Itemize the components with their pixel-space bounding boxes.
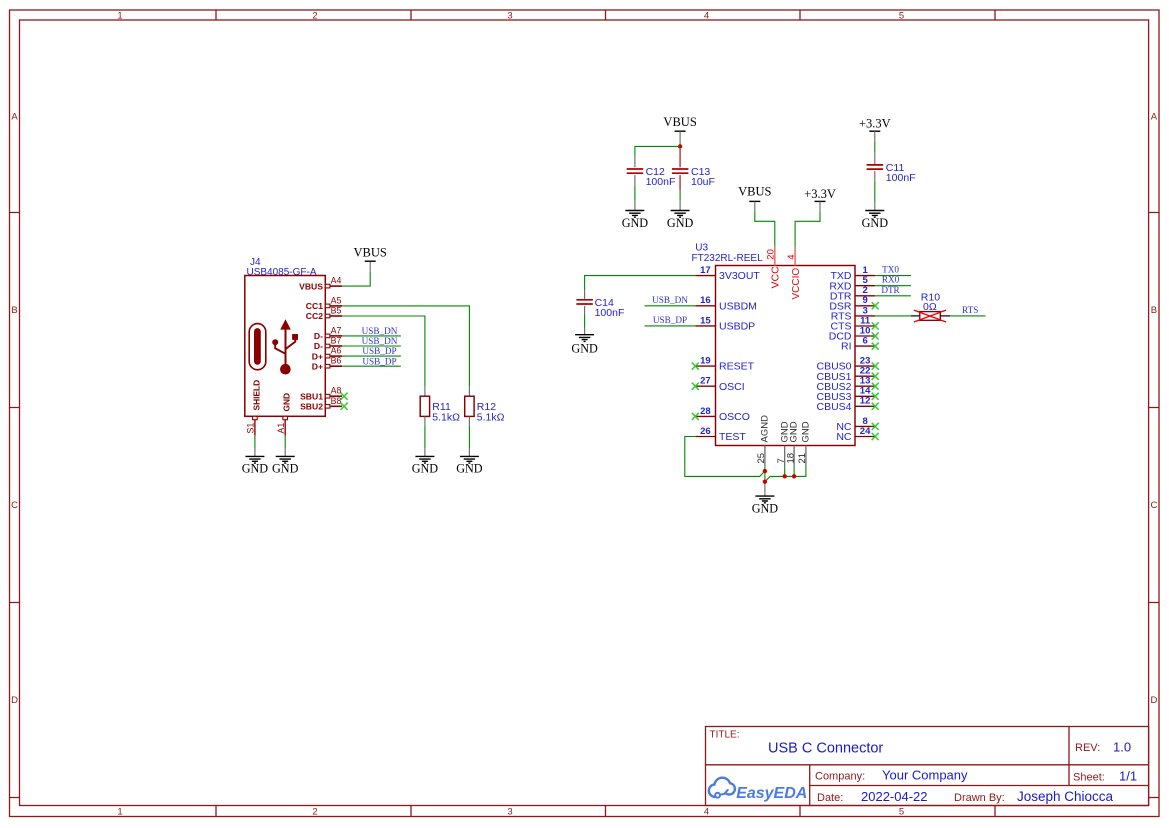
svg-text:TEST: TEST	[719, 431, 746, 443]
svg-text:GND: GND	[862, 216, 889, 230]
wire R10 to RTS label	[950, 315, 985, 317]
U3 right pin 1 TXD	[855, 275, 875, 277]
ground R12	[460, 456, 479, 463]
svg-text:2: 2	[312, 806, 317, 817]
svg-text:17: 17	[700, 265, 711, 276]
wire D- A7	[342, 335, 401, 337]
svg-text:Drawn By:: Drawn By:	[954, 792, 1005, 804]
svg-text:USBDM: USBDM	[719, 300, 757, 312]
U3 right pin 11 CTS	[855, 325, 875, 327]
svg-text:GND: GND	[752, 501, 779, 515]
svg-text:USB C Connector: USB C Connector	[768, 740, 883, 756]
ground C14	[575, 335, 594, 342]
svg-text:CBUS4: CBUS4	[816, 401, 851, 413]
svg-text:A: A	[11, 112, 18, 123]
U3 top pin 20 VCC	[774, 247, 776, 266]
svg-text:GND: GND	[272, 462, 299, 476]
svg-text:5: 5	[899, 10, 904, 21]
svg-text:EasyEDA: EasyEDA	[736, 785, 807, 802]
svg-text:4: 4	[704, 806, 709, 817]
J4 bottom pins S1 A1	[246, 416, 288, 456]
U3 right pin 2 DTR	[855, 295, 875, 297]
capacitor C14	[576, 300, 593, 304]
wire DTR	[875, 295, 911, 297]
U3 right pin 22 CBUS1	[855, 375, 875, 377]
svg-text:VCCIO: VCCIO	[791, 268, 802, 300]
svg-text:2022-04-22: 2022-04-22	[861, 789, 928, 804]
svg-text:B8: B8	[331, 396, 342, 406]
svg-text:GND: GND	[667, 216, 694, 230]
U3 right pin 13 CBUS2	[855, 385, 875, 387]
svg-text:C: C	[11, 500, 18, 511]
IC U3 FT232RL-REEL	[692, 243, 856, 446]
wire D+ A6	[342, 355, 401, 357]
svg-text:D: D	[11, 695, 18, 706]
svg-text:5.1kΩ: 5.1kΩ	[432, 411, 460, 423]
U3 right pin 9 DSR	[855, 305, 875, 307]
svg-text:USB_DP: USB_DP	[653, 315, 687, 325]
svg-text:A: A	[1151, 112, 1158, 123]
svg-text:B7: B7	[331, 336, 342, 346]
svg-text:5: 5	[899, 806, 904, 817]
wire RXD	[875, 285, 911, 287]
svg-text:USB_DN: USB_DN	[362, 336, 398, 346]
svg-text:5.1kΩ: 5.1kΩ	[477, 411, 505, 423]
svg-text:16: 16	[700, 295, 711, 306]
svg-text:Your Company: Your Company	[882, 767, 968, 782]
EasyEDA logo	[709, 778, 807, 802]
junction AGND bus 2	[763, 480, 767, 484]
svg-text:26: 26	[700, 426, 711, 437]
svg-text:3V3OUT: 3V3OUT	[719, 270, 760, 282]
svg-text:A4: A4	[331, 276, 342, 286]
svg-text:VBUS: VBUS	[354, 245, 387, 259]
U3 right pin 5 RXD	[855, 285, 875, 287]
svg-text:Date:: Date:	[817, 792, 843, 804]
svg-text:VBUS: VBUS	[738, 185, 771, 199]
svg-text:USB_DN: USB_DN	[362, 326, 398, 336]
no-connect X SBU1	[341, 393, 348, 400]
svg-text:A6: A6	[331, 346, 342, 356]
svg-text:20: 20	[766, 249, 777, 260]
svg-text:NC: NC	[836, 431, 852, 443]
svg-text:GND: GND	[282, 393, 292, 412]
svg-text:A8: A8	[331, 386, 342, 396]
svg-text:VBUS: VBUS	[663, 115, 696, 129]
U3 right pin 24 NC	[855, 436, 875, 438]
svg-text:D+: D+	[312, 361, 323, 371]
svg-text:TX0: TX0	[882, 265, 899, 275]
svg-text:25: 25	[756, 453, 767, 464]
svg-text:D: D	[1150, 695, 1157, 706]
svg-text:C: C	[1150, 500, 1157, 511]
svg-text:10uF: 10uF	[691, 176, 715, 188]
svg-text:USB_DP: USB_DP	[362, 356, 396, 366]
svg-text:CC1: CC1	[306, 301, 323, 311]
wire USBDM stub	[645, 305, 696, 307]
svg-text:15: 15	[700, 315, 711, 326]
svg-text:4: 4	[786, 254, 797, 259]
svg-text:SHIELD: SHIELD	[251, 380, 261, 411]
capacitor C13	[679, 149, 681, 168]
wire D- B7	[342, 345, 401, 347]
svg-text:100nF: 100nF	[595, 307, 625, 319]
svg-text:D+: D+	[312, 351, 323, 361]
wire TXD	[875, 275, 911, 277]
connector J4 USB4085-GF-A	[245, 257, 325, 416]
U3 bottom pin 25 AGND	[764, 446, 766, 467]
svg-text:100nF: 100nF	[646, 176, 676, 188]
svg-text:OSCI: OSCI	[719, 381, 745, 393]
svg-text:100nF: 100nF	[886, 172, 916, 184]
svg-text:GND: GND	[622, 216, 649, 230]
ground C12	[625, 211, 644, 218]
svg-text:RX0: RX0	[882, 275, 900, 285]
no-connect X SBU2	[341, 403, 348, 410]
ground R11	[415, 456, 434, 463]
svg-text:+3.3V: +3.3V	[859, 117, 891, 131]
svg-text:3: 3	[507, 10, 512, 21]
svg-text:S1: S1	[246, 423, 256, 434]
U3 left pin 16 USBDM	[695, 305, 715, 307]
svg-text:21: 21	[797, 453, 808, 464]
svg-text:USBDP: USBDP	[719, 321, 755, 333]
junction AGND bus 1	[763, 469, 767, 473]
svg-text:SBU1: SBU1	[300, 391, 323, 401]
svg-text:A5: A5	[331, 295, 342, 305]
resistor R10	[920, 312, 941, 321]
wire VBUS node to C12	[635, 146, 680, 155]
svg-text:6: 6	[862, 336, 867, 347]
J4 pin names	[299, 281, 323, 411]
U3 left pin 19 RESET	[695, 365, 715, 367]
J4 right-side pins	[325, 284, 342, 408]
svg-text:VBUS: VBUS	[299, 281, 323, 291]
U3 left pin 27 OSCI	[695, 385, 715, 387]
svg-text:28: 28	[700, 406, 711, 417]
wire 3V3OUT to C14	[585, 276, 696, 291]
capacitor C11	[867, 165, 884, 169]
wire TEST to ground bus	[685, 437, 765, 477]
svg-text:1: 1	[117, 806, 122, 817]
U3 right pin 23 CBUS0	[855, 365, 875, 367]
svg-text:RTS: RTS	[962, 305, 978, 315]
ground C11	[865, 211, 884, 218]
svg-text:A1: A1	[276, 423, 286, 434]
svg-text:A7: A7	[331, 325, 342, 335]
svg-text:GND: GND	[456, 462, 483, 476]
U3 top pin 4 VCCIO	[794, 247, 796, 266]
svg-text:AGND: AGND	[760, 415, 771, 443]
power flag VBUS at J4	[365, 260, 376, 262]
svg-text:Joseph Chiocca: Joseph Chiocca	[1017, 789, 1114, 804]
svg-text:24: 24	[860, 426, 871, 437]
U3 bottom pin 18 GND	[793, 446, 795, 467]
U3 right pin 10 DCD	[855, 335, 875, 337]
resistor R11	[420, 396, 429, 416]
svg-text:TITLE:: TITLE:	[710, 730, 740, 741]
svg-text:Sheet:: Sheet:	[1073, 771, 1105, 783]
ground C13	[671, 211, 690, 218]
wire D+ B6	[342, 365, 401, 367]
wire USBDP stub	[645, 325, 696, 327]
junction VBUS node	[678, 144, 682, 148]
svg-text:1/1: 1/1	[1119, 768, 1137, 783]
svg-text:3: 3	[507, 806, 512, 817]
svg-text:GND: GND	[789, 421, 800, 442]
R10 crossed-out X	[914, 310, 946, 322]
svg-text:4: 4	[704, 10, 709, 21]
svg-text:RESET: RESET	[719, 361, 755, 373]
svg-text:D-: D-	[314, 331, 323, 341]
svg-text:27: 27	[700, 376, 711, 387]
J4 USB trident icon	[249, 319, 298, 374]
junction GND pin7	[783, 474, 787, 478]
svg-text:2: 2	[312, 10, 317, 21]
svg-text:DTR: DTR	[881, 285, 900, 295]
ground J4 S1	[245, 456, 264, 463]
resistor R12	[465, 396, 474, 416]
svg-text:18: 18	[785, 453, 796, 464]
U3 left pin 15 USBDP	[695, 325, 715, 327]
svg-text:GND: GND	[801, 421, 812, 442]
wire +3.3V to VCCIO pin 4	[795, 212, 820, 247]
wire CC2 to R11	[342, 316, 425, 386]
ground J4 A1	[276, 456, 295, 463]
wire J4 VBUS pin to VBUS flag	[342, 272, 370, 286]
svg-text:D-: D-	[314, 341, 323, 351]
svg-text:USB_DP: USB_DP	[362, 346, 396, 356]
svg-text:GND: GND	[412, 462, 439, 476]
wire CC1 to R12	[342, 306, 469, 387]
svg-text:+3.3V: +3.3V	[804, 187, 836, 201]
svg-text:SBU2: SBU2	[300, 402, 323, 412]
wire VBUS to VCC pin 20	[755, 212, 775, 247]
svg-text:0Ω: 0Ω	[923, 301, 937, 313]
J4 pin numbers	[331, 276, 342, 406]
U3 right pin 6 RI	[855, 345, 875, 347]
svg-text:1.0: 1.0	[1113, 739, 1131, 754]
junction GND pin18	[792, 474, 796, 478]
U3 right pin 14 CBUS3	[855, 395, 875, 397]
svg-text:12: 12	[860, 396, 871, 407]
svg-text:Company:: Company:	[815, 770, 865, 782]
svg-text:B: B	[1151, 305, 1157, 316]
title block	[706, 727, 1149, 806]
svg-text:USB_DN: USB_DN	[652, 295, 688, 305]
U3 bottom pin 21 GND	[805, 446, 807, 467]
U3 bottom pin 7 GND	[784, 446, 786, 467]
U3 right pin 3 RTS	[855, 315, 875, 317]
svg-text:GND: GND	[571, 342, 598, 356]
svg-text:GND: GND	[242, 462, 269, 476]
svg-text:RI: RI	[841, 341, 852, 353]
U3 right pin 8 NC	[855, 425, 875, 427]
svg-text:B: B	[11, 305, 17, 316]
wire RTS pin3 to R10	[875, 315, 911, 317]
U3 left pin 26 TEST	[695, 436, 715, 438]
svg-text:19: 19	[700, 356, 711, 367]
capacitor C12	[627, 169, 644, 173]
U3 left pin 28 OSCO	[695, 415, 715, 417]
U3 right pin 12 CBUS4	[855, 405, 875, 407]
svg-text:B6: B6	[331, 356, 342, 366]
ground U3	[764, 485, 766, 496]
svg-text:REV:: REV:	[1075, 742, 1100, 754]
svg-text:B5: B5	[331, 306, 342, 316]
svg-text:VCC: VCC	[770, 266, 782, 289]
svg-text:CC2: CC2	[306, 311, 323, 321]
svg-text:1: 1	[117, 10, 122, 21]
svg-text:FT232RL-REEL: FT232RL-REEL	[692, 253, 764, 264]
svg-text:OSCO: OSCO	[719, 411, 750, 423]
U3 left pin 17 3V3OUT	[695, 275, 715, 277]
